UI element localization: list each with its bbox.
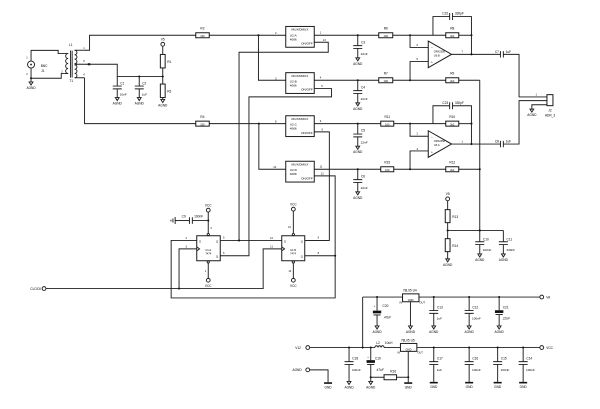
node VA terminal <box>540 295 551 299</box>
node feedback right <box>470 34 472 36</box>
svg-text:GND: GND <box>325 385 333 389</box>
wire C7 to J2 pin1 <box>503 54 547 97</box>
wire row1 U2:A output <box>314 34 379 36</box>
node C9 tap <box>207 220 209 222</box>
node output U3:B <box>470 53 472 55</box>
svg-text:C5: C5 <box>361 129 365 133</box>
svg-text:AGND: AGND <box>292 368 302 372</box>
ground AGND (J2) <box>527 109 537 117</box>
ground AGND (U4) <box>406 326 416 334</box>
wire split down to U2:D input <box>259 124 286 170</box>
svg-text:R9: R9 <box>450 72 454 76</box>
ground AGND (C5) <box>353 146 363 154</box>
svg-text:100: 100 <box>384 79 389 83</box>
svg-text:R11: R11 <box>384 115 390 119</box>
svg-text:C22: C22 <box>442 12 448 16</box>
flip-flop U1:A <box>186 226 226 273</box>
wire U2:A control routing <box>239 42 328 240</box>
power AGND terminal <box>292 368 328 382</box>
svg-text:Q: Q <box>301 254 303 258</box>
svg-text:AGND: AGND <box>443 263 453 267</box>
capacitor C12 <box>465 297 481 326</box>
connector J1 BNC <box>26 55 48 76</box>
svg-text:AGND: AGND <box>344 385 354 389</box>
svg-text:BNC: BNC <box>41 64 48 68</box>
svg-text:C20: C20 <box>383 304 389 308</box>
ground AGND (C10) <box>475 254 485 262</box>
ground AGND (C6) <box>353 192 363 200</box>
wire BNC to AGND <box>30 78 32 82</box>
wire R6 to node A <box>393 34 446 36</box>
wire split down to U2:B input <box>258 35 285 80</box>
svg-text:R15: R15 <box>384 161 390 165</box>
node C3 tap <box>357 34 359 36</box>
capacitor C23 feedback <box>433 101 472 124</box>
resistor R8 feedback <box>446 27 459 39</box>
node CLOCK tap U1:A <box>178 288 180 290</box>
capacitor C3 <box>353 35 368 58</box>
capacitor C19 polarized <box>367 348 385 378</box>
svg-text:7474: 7474 <box>205 252 211 256</box>
svg-text:100: 100 <box>385 123 390 127</box>
svg-text:C7: C7 <box>495 50 499 54</box>
svg-text:ON/OFF: ON/OFF <box>301 176 313 180</box>
resistor R7 <box>379 72 393 84</box>
ground AGND (C3) <box>353 58 363 66</box>
svg-text:330nF: 330nF <box>506 248 515 252</box>
power VCC (U1:B top) <box>290 203 297 234</box>
ground AGND (R14) <box>443 259 453 267</box>
node C19 bottom <box>370 376 372 378</box>
svg-text:4066: 4066 <box>290 37 297 41</box>
resistor R10 feedback <box>446 115 459 127</box>
regulator U4 78L05 <box>399 288 425 304</box>
wire bias node rail <box>448 229 504 231</box>
wire R8 right <box>459 34 472 36</box>
svg-text:R10: R10 <box>449 115 455 119</box>
wire feedback to output node <box>470 35 472 54</box>
svg-text:U1:A: U1:A <box>205 248 211 252</box>
capacitor C21 polarized <box>495 297 511 326</box>
resistor R6 <box>379 27 393 39</box>
svg-text:AGND: AGND <box>372 330 382 334</box>
ground GND (C16) <box>465 382 473 389</box>
node C16 tap <box>468 347 470 349</box>
op-amp U3:A <box>417 131 464 158</box>
analog switch U2:D 4066 <box>273 161 324 182</box>
svg-text:C17: C17 <box>437 357 443 361</box>
wire U1:A Q to U1:B D <box>220 239 282 241</box>
svg-text:AGND: AGND <box>527 113 537 117</box>
svg-text:MUX/DMUX: MUX/DMUX <box>292 162 309 166</box>
svg-text:AGND: AGND <box>135 101 145 105</box>
ground AGND (C4) <box>353 103 363 111</box>
svg-text:GND: GND <box>408 298 414 302</box>
node CLOCK terminal <box>30 287 46 291</box>
svg-text:MUX/DMUX: MUX/DMUX <box>292 28 309 32</box>
svg-text:C19: C19 <box>375 357 381 361</box>
svg-text:R13: R13 <box>452 215 458 219</box>
node C2 tap <box>138 76 140 78</box>
svg-text:OUT: OUT <box>419 301 425 305</box>
svg-text:OPA2350: OPA2350 <box>434 49 446 53</box>
capacitor C10 <box>475 230 491 254</box>
svg-text:4066: 4066 <box>290 172 297 176</box>
svg-text:−: − <box>431 135 433 139</box>
ground GND (C15) <box>494 382 502 389</box>
node C20 tap <box>376 296 378 298</box>
svg-text:GND: GND <box>520 385 528 389</box>
wire C8 to J2 pin2 <box>503 101 547 144</box>
svg-text:U1:B: U1:B <box>290 248 296 252</box>
svg-text:22uF: 22uF <box>502 316 511 320</box>
svg-text:R1: R1 <box>167 60 171 64</box>
svg-text:AGND: AGND <box>26 86 36 90</box>
capacitor C2 <box>135 77 147 98</box>
svg-text:VCC: VCC <box>205 204 212 208</box>
svg-text:100nF: 100nF <box>501 368 510 372</box>
wire secondary bottom to row3 <box>85 78 196 124</box>
flip-flop U1:B <box>270 225 320 273</box>
svg-text:+: + <box>431 61 433 65</box>
ground AGND (divider) <box>158 99 168 107</box>
svg-text:V5: V5 <box>161 37 165 41</box>
ground AGND (C12) <box>465 326 475 334</box>
svg-text:Q: Q <box>216 254 218 258</box>
wire R7 to node B <box>393 79 446 81</box>
svg-text:Q: Q <box>216 239 218 243</box>
wire R11 to node C <box>394 123 446 125</box>
svg-text:ON/OFF: ON/OFF <box>301 88 313 92</box>
svg-text:C4: C4 <box>361 85 365 89</box>
svg-text:VCC: VCC <box>205 284 212 288</box>
svg-text:C3: C3 <box>361 40 365 44</box>
wire J2 pin3 to AGND <box>532 105 547 109</box>
svg-text:78L05 U4: 78L05 U4 <box>403 288 417 292</box>
wire feedback loop to U1:A D <box>171 240 335 298</box>
wire row4 U2:D output <box>314 168 381 170</box>
wire node B to non-inverting input <box>410 62 428 81</box>
svg-text:2k2: 2k2 <box>450 79 455 83</box>
svg-text:J1: J1 <box>41 69 45 73</box>
node T1 center tap <box>88 63 91 65</box>
node VCC terminal <box>540 346 554 350</box>
svg-text:MUX/DMUX: MUX/DMUX <box>292 117 309 121</box>
svg-text:C9: C9 <box>182 214 186 218</box>
svg-text:V12: V12 <box>295 346 301 350</box>
node divider <box>162 76 164 78</box>
node C12 tap <box>468 296 470 298</box>
wire VA rail <box>419 296 540 298</box>
svg-text:100nF: 100nF <box>352 368 361 372</box>
svg-text:1uF: 1uF <box>437 316 442 320</box>
ground AGND (C1) <box>113 98 123 106</box>
svg-text:AGND: AGND <box>113 101 123 105</box>
svg-text:100: 100 <box>385 168 390 172</box>
resistor R13 <box>445 201 458 231</box>
svg-text:C1: C1 <box>120 81 124 85</box>
svg-text:T1: T1 <box>69 79 73 83</box>
svg-text:100: 100 <box>384 34 389 38</box>
svg-text:47uF: 47uF <box>377 368 385 372</box>
svg-text:D: D <box>199 239 201 243</box>
wire R9 to bias rail <box>459 79 480 81</box>
svg-text:AGND: AGND <box>495 330 505 334</box>
svg-text:1uF: 1uF <box>506 139 512 143</box>
power VCC (U1:A bottom) <box>205 263 212 288</box>
wire CLOCK line <box>46 249 282 289</box>
svg-text:U3:A: U3:A <box>434 143 440 147</box>
node C18 tap <box>348 347 350 349</box>
svg-text:1uF: 1uF <box>506 50 512 54</box>
node ctrlA tap <box>238 239 240 241</box>
wire row2 U2:B output <box>314 79 379 81</box>
svg-text:4066: 4066 <box>290 83 297 87</box>
capacitor C18 <box>345 348 361 382</box>
svg-text:AGND: AGND <box>429 330 439 334</box>
svg-text:GND: GND <box>430 385 438 389</box>
svg-text:VCC: VCC <box>290 203 297 207</box>
svg-text:C12: C12 <box>472 306 478 310</box>
wire U2:C control routing <box>305 132 330 241</box>
svg-text:C6: C6 <box>361 174 365 178</box>
svg-text:100nF: 100nF <box>472 316 481 320</box>
svg-text:AGND: AGND <box>353 150 363 154</box>
wire BNC pin1 to T1 primary top <box>31 50 64 61</box>
svg-text:22nF: 22nF <box>361 186 368 190</box>
resistor R3 <box>160 77 171 100</box>
node C19 tap <box>370 347 372 349</box>
node C <box>409 123 411 125</box>
node feedback2 right <box>470 123 472 125</box>
node bias R12 <box>479 168 481 170</box>
svg-text:10nF: 10nF <box>120 93 127 97</box>
svg-text:C23: C23 <box>442 101 448 105</box>
wire bias rail vertical <box>479 80 481 230</box>
svg-text:2k2: 2k2 <box>450 34 455 38</box>
wire row3 to U2:C <box>209 123 286 125</box>
svg-text:AGND: AGND <box>499 258 509 262</box>
ground AGND (C2) <box>135 98 145 106</box>
svg-text:C8: C8 <box>495 139 499 143</box>
svg-text:12: 12 <box>270 236 273 240</box>
resistor R12 bias <box>446 161 459 173</box>
svg-text:HDR_3: HDR_3 <box>545 114 556 118</box>
capacitor C8 <box>495 139 511 147</box>
regulator U5 78L05 <box>397 338 423 354</box>
node C17 tap <box>433 347 435 349</box>
svg-text:R6: R6 <box>384 27 388 31</box>
resistor R16 <box>371 370 409 380</box>
svg-text:R2: R2 <box>200 27 204 31</box>
capacitor C11 <box>499 230 515 254</box>
svg-text:C10: C10 <box>483 237 489 241</box>
node C4 tap <box>357 79 359 81</box>
analog switch U2:B 4066 <box>275 73 323 94</box>
svg-text:7474: 7474 <box>290 252 296 256</box>
resistor R4 <box>196 115 210 127</box>
analog switch U2:C 4066 <box>275 116 323 137</box>
svg-text:47uF: 47uF <box>384 315 392 319</box>
ground AGND (C21) <box>495 326 505 334</box>
ground AGND (C18) <box>344 381 354 389</box>
node row1 split <box>257 34 259 36</box>
node R16 right <box>407 376 409 378</box>
node output U3:A <box>470 143 472 145</box>
svg-text:AGND: AGND <box>366 385 376 389</box>
capacitor C5 <box>353 124 368 147</box>
node BNC ground junction <box>30 77 32 79</box>
node V5 bias terminal <box>446 192 450 201</box>
resistor R2 <box>196 27 210 39</box>
wire secondary top to row1 <box>84 35 196 50</box>
svg-text:100: 100 <box>200 123 205 127</box>
wire C19 to AGND <box>370 377 372 381</box>
analog switch U2:A 4066 <box>275 26 326 47</box>
capacitor C9 <box>175 214 208 224</box>
capacitor C14 <box>519 348 535 382</box>
node C13 tap <box>433 296 435 298</box>
ground GND (C9, rotated) <box>171 217 175 224</box>
node C6 tap <box>357 168 359 170</box>
svg-text:100nF: 100nF <box>472 368 481 372</box>
node V12-VA tap <box>362 347 364 349</box>
svg-text:22nF: 22nF <box>361 140 368 144</box>
capacitor C16 <box>465 348 481 382</box>
svg-text:R14: R14 <box>452 244 458 248</box>
wire node A to inverting input <box>410 35 428 47</box>
wire V12 rail <box>310 347 375 349</box>
svg-text:10uH: 10uH <box>385 341 393 345</box>
node Qbar B <box>334 255 336 257</box>
svg-text:2k2: 2k2 <box>450 123 455 127</box>
resistor R11 <box>381 115 394 127</box>
node bias center <box>447 229 449 231</box>
wire node D to non-inverting input <box>410 151 428 169</box>
svg-text:GND: GND <box>405 385 413 389</box>
resistor R9 bias <box>446 72 459 84</box>
capacitor C13 <box>429 297 443 326</box>
svg-text:+: + <box>431 150 433 154</box>
svg-text:VCC: VCC <box>546 346 553 350</box>
svg-text:AGND: AGND <box>406 330 416 334</box>
inductor L2 <box>375 341 401 348</box>
node bias C10 <box>479 229 481 231</box>
wire U3:A output <box>452 143 501 145</box>
svg-text:J2: J2 <box>548 108 552 112</box>
node C15 tap <box>497 347 499 349</box>
svg-text:R16: R16 <box>390 370 396 374</box>
svg-text:R7: R7 <box>384 72 388 76</box>
svg-text:ON/OFF: ON/OFF <box>301 131 313 135</box>
capacitor C17 <box>429 348 443 382</box>
node B <box>409 79 411 81</box>
svg-text:L2: L2 <box>376 341 380 345</box>
capacitor C4 <box>353 80 368 103</box>
svg-text:GND: GND <box>466 385 474 389</box>
wire U1:B Qbar output <box>305 255 335 257</box>
wire U2:B control routing <box>220 89 331 256</box>
svg-text:AGND: AGND <box>353 196 363 200</box>
capacitor C22 feedback <box>433 12 472 36</box>
capacitor C15 <box>493 348 509 382</box>
power VCC (U1:A top) <box>205 204 212 234</box>
capacitor C6 <box>353 169 368 192</box>
wire R15 to node D <box>394 168 446 170</box>
svg-text:C14: C14 <box>526 357 532 361</box>
svg-text:GND: GND <box>406 347 412 351</box>
wire U3:B output <box>452 53 501 55</box>
svg-text:R12: R12 <box>449 161 455 165</box>
svg-text:V5: V5 <box>446 192 450 196</box>
power VCC (U1:B bottom) <box>290 263 297 288</box>
svg-text:C16: C16 <box>472 357 478 361</box>
svg-text:AGND: AGND <box>475 258 485 262</box>
node D <box>409 168 411 170</box>
wire VA regulator input <box>363 296 403 298</box>
svg-text:100nF: 100nF <box>483 248 492 252</box>
wire CLOCK to U1:A clk <box>179 249 197 289</box>
ground GND (AGND tie) <box>324 382 332 389</box>
wire U4 GND to AGND <box>409 302 411 326</box>
svg-text:ON/OFF: ON/OFF <box>301 41 313 45</box>
svg-text:22nF: 22nF <box>361 97 368 101</box>
op-amp U3:B <box>417 41 464 68</box>
wire R12 to bias rail <box>459 168 480 170</box>
resistor R1 <box>160 46 171 76</box>
svg-text:AGND: AGND <box>353 107 363 111</box>
svg-text:1uF: 1uF <box>437 368 442 372</box>
node row3 split <box>258 123 260 125</box>
svg-text:IN: IN <box>397 350 400 354</box>
node A <box>409 34 411 36</box>
resistor R14 <box>445 230 458 258</box>
ground GND (C14) <box>519 382 527 389</box>
wire feedback2 to output node <box>470 124 472 144</box>
svg-text:10: 10 <box>288 225 291 229</box>
svg-text:1uF: 1uF <box>142 93 147 97</box>
svg-text:100: 100 <box>200 34 205 38</box>
wire U2:D control routing <box>314 176 335 256</box>
svg-text:330pF: 330pF <box>455 12 464 16</box>
wire U5 GND down <box>407 351 409 382</box>
svg-text:C21: C21 <box>503 306 509 310</box>
wire VCC rail <box>417 347 540 349</box>
svg-text:VCC: VCC <box>290 284 297 288</box>
capacitor C7 <box>495 50 511 58</box>
ground AGND (BNC) <box>26 82 36 90</box>
wire BNC pin2 to T1 primary bottom <box>31 68 64 78</box>
node C14 tap <box>522 347 524 349</box>
capacitor C1 <box>113 77 127 98</box>
svg-text:C2: C2 <box>142 81 146 85</box>
svg-text:C15: C15 <box>501 357 507 361</box>
svg-text:D: D <box>284 239 286 243</box>
ground AGND (C11) <box>499 254 509 262</box>
node V12 terminal <box>295 346 309 350</box>
svg-text:C13: C13 <box>437 306 443 310</box>
svg-text:AGND: AGND <box>465 330 475 334</box>
svg-text:C18: C18 <box>352 357 358 361</box>
svg-text:4066: 4066 <box>290 127 297 131</box>
wire R10 right <box>459 123 472 125</box>
wire node C to inverting input <box>410 124 428 137</box>
power VA row: input wire <box>362 297 364 348</box>
svg-text:CLOCK: CLOCK <box>30 287 42 291</box>
svg-text:C11: C11 <box>507 237 513 241</box>
svg-text:330pF: 330pF <box>455 101 464 105</box>
ground AGND (C13) <box>429 326 439 334</box>
